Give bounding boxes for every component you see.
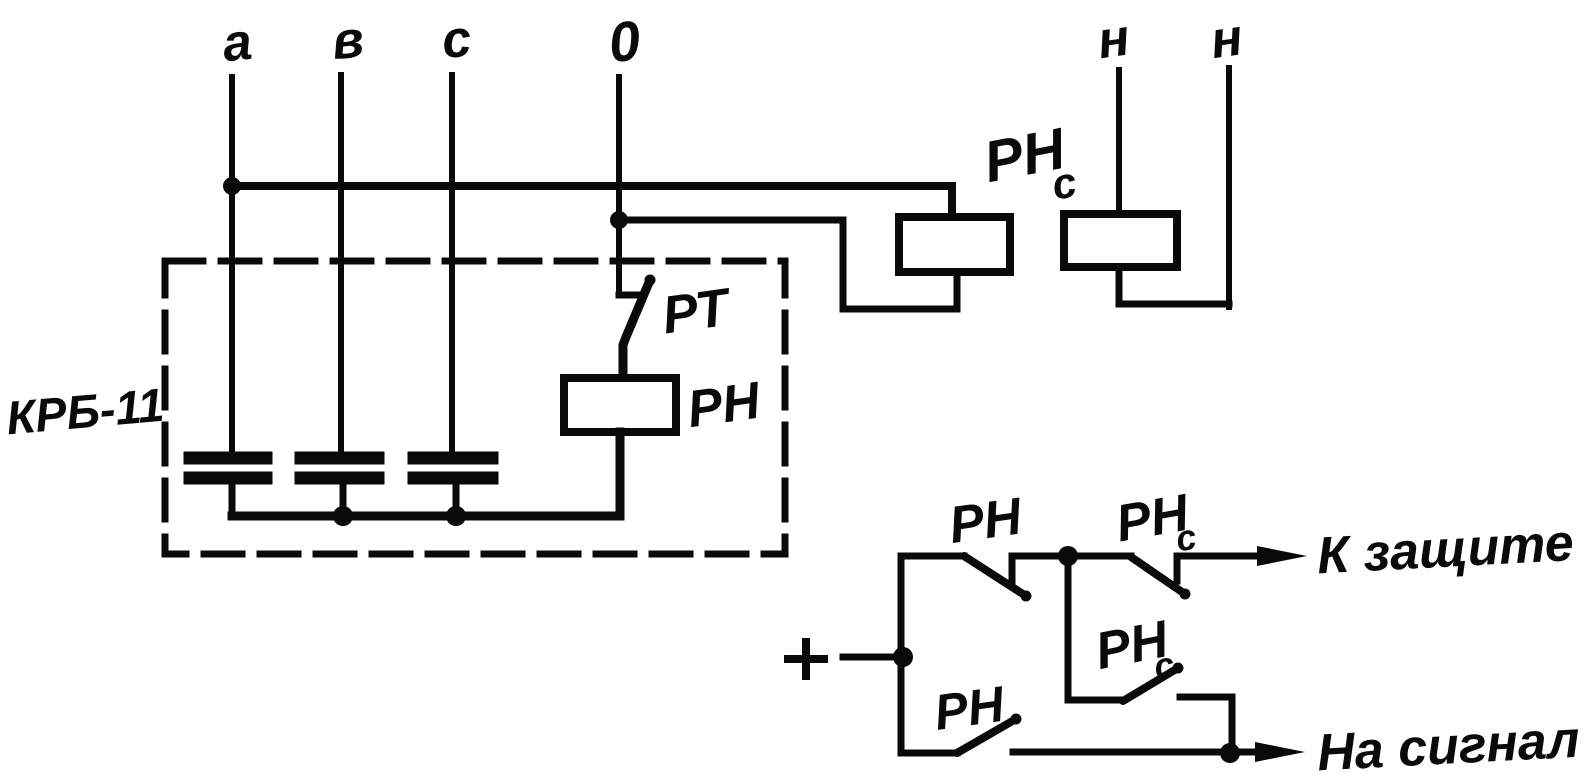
arrow to protection	[1257, 546, 1307, 566]
svg-text:с: с	[439, 9, 474, 70]
contact RNs top	[1068, 553, 1131, 560]
contact RN bottom	[957, 719, 1016, 753]
junction 0	[610, 211, 628, 229]
wire coil RNs right bottom lead	[1119, 267, 1229, 304]
contact RT	[619, 292, 638, 299]
junction node1	[893, 647, 913, 667]
label RNs top	[1112, 483, 1200, 569]
junction a	[223, 177, 241, 195]
wire middle vertical	[1068, 556, 1123, 700]
arrow to signal	[1255, 742, 1305, 762]
svg-text:РН: РН	[946, 487, 1027, 555]
svg-text:0: 0	[606, 8, 644, 74]
capacitor Cc	[414, 458, 492, 516]
label RNs coil	[979, 115, 1081, 222]
coil RNs winding 1	[899, 217, 1010, 272]
junction bus b	[333, 506, 353, 526]
line n1	[1116, 70, 1122, 214]
wire plus to node	[843, 654, 903, 661]
junction node3	[1220, 743, 1240, 763]
svg-text:в: в	[329, 10, 366, 71]
wire left vertical	[901, 556, 964, 753]
wire RN coil to bus	[617, 432, 624, 516]
relay coil RN	[564, 378, 676, 432]
wire from 0 to coil RNs left return loop	[619, 220, 957, 309]
junction bus c	[446, 506, 466, 526]
capacitor Cb	[301, 458, 378, 516]
coil RNs winding 2	[1064, 214, 1177, 267]
contact RNs middle	[1123, 668, 1178, 701]
junction node2	[1058, 546, 1078, 566]
svg-text:РТ: РТ	[659, 277, 737, 345]
svg-text:РН: РН	[931, 676, 1008, 741]
phase line a	[229, 77, 235, 453]
dashed box KRB-11	[165, 261, 785, 554]
phase line c	[449, 75, 455, 453]
contact RN top	[964, 556, 1026, 596]
svg-text:РН: РН	[684, 371, 765, 439]
label RNs middle	[1091, 610, 1178, 698]
line n2	[1226, 68, 1232, 307]
phase line b	[338, 75, 344, 453]
svg-text:а: а	[220, 13, 255, 74]
neutral line 0	[616, 77, 622, 295]
capacitor Ca	[190, 458, 266, 516]
bottom bus	[232, 432, 620, 516]
plus terminal	[788, 642, 824, 676]
wire from a-bus to coil RNs left	[232, 186, 952, 217]
